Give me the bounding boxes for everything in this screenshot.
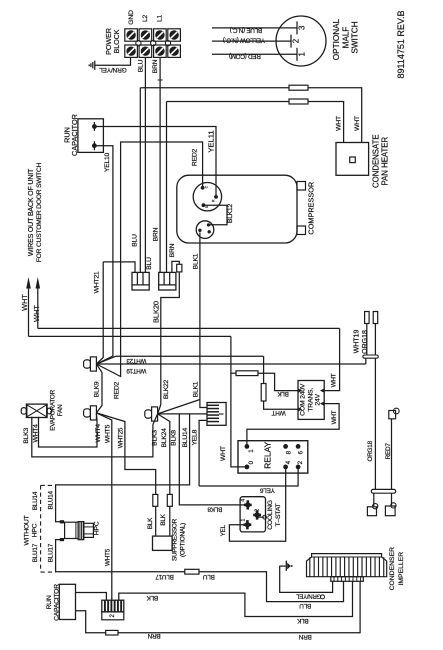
svg-text:BLU17: BLU17 — [32, 543, 39, 562]
svg-text:RED (COM): RED (COM) — [229, 53, 261, 60]
svg-text:BRN: BRN — [153, 227, 160, 241]
svg-text:BRN: BRN — [169, 243, 176, 257]
svg-text:WHT: WHT — [354, 116, 361, 131]
svg-text:BLK24: BLK24 — [161, 428, 168, 448]
svg-text:WHT: WHT — [20, 294, 29, 311]
svg-text:BLOCK: BLOCK — [112, 29, 121, 53]
svg-text:S: S — [205, 206, 209, 208]
svg-text:BLU: BLU — [299, 602, 311, 609]
svg-text:BLK: BLK — [147, 517, 154, 529]
svg-text:BLU: BLU — [203, 573, 215, 580]
svg-text:YEL8: YEL8 — [191, 429, 198, 445]
svg-text:BLK8: BLK8 — [207, 506, 222, 513]
svg-text:GRN/YEL: GRN/YEL — [295, 592, 321, 598]
svg-text:BLUE (N.C.): BLUE (N.C.) — [230, 27, 262, 34]
svg-text:CAPACITOR: CAPACITOR — [53, 584, 60, 621]
svg-text:COMPRESSOR: COMPRESSOR — [306, 182, 315, 235]
svg-text:BLK: BLK — [277, 390, 289, 397]
svg-text:BLU17: BLU17 — [155, 573, 174, 580]
svg-text:WHT: WHT — [331, 373, 338, 387]
svg-text:WHT: WHT — [336, 116, 343, 131]
svg-text:WHT: WHT — [331, 410, 338, 424]
svg-text:CONDENSER: CONDENSER — [389, 547, 396, 591]
svg-text:WIRES OUT BACK OF UNIT: WIRES OUT BACK OF UNIT — [27, 168, 35, 256]
svg-text:3: 3 — [297, 26, 306, 30]
svg-text:WHT: WHT — [220, 446, 227, 461]
svg-text:WHT: WHT — [32, 305, 41, 322]
svg-text:RED7: RED7 — [385, 443, 392, 460]
svg-text:L1: L1 — [156, 15, 163, 23]
svg-text:BLU14: BLU14 — [182, 427, 189, 447]
svg-text:2: 2 — [291, 39, 300, 43]
svg-text:(OPTIONAL): (OPTIONAL) — [179, 523, 186, 557]
svg-text:BLK1: BLK1 — [193, 253, 200, 269]
svg-text:T–STAT: T–STAT — [275, 504, 282, 527]
svg-text:RED2: RED2 — [114, 381, 121, 399]
svg-text:BLK9: BLK9 — [94, 381, 101, 397]
svg-text:BLK8: BLK8 — [171, 430, 178, 446]
svg-text:RUN: RUN — [46, 595, 53, 609]
svg-text:BLU14: BLU14 — [48, 490, 55, 509]
svg-text:BRN: BRN — [147, 632, 160, 639]
svg-text:BRN: BRN — [152, 59, 159, 73]
svg-text:OPTIONAL: OPTIONAL — [332, 18, 341, 60]
svg-text:BLU: BLU — [146, 257, 153, 270]
svg-text:SWITCH: SWITCH — [351, 21, 360, 53]
svg-text:BLK3: BLK3 — [152, 430, 159, 446]
svg-text:BLU: BLU — [132, 234, 139, 247]
svg-text:BRN: BRN — [298, 633, 311, 640]
svg-text:BLK: BLK — [146, 594, 158, 601]
svg-text:CAPACITOR: CAPACITOR — [70, 114, 79, 156]
svg-text:RED2: RED2 — [192, 148, 199, 166]
svg-text:WHT5: WHT5 — [104, 424, 111, 443]
svg-text:WHT25: WHT25 — [117, 427, 124, 448]
svg-text:YEL11: YEL11 — [206, 130, 215, 152]
svg-text:RELAY: RELAY — [263, 441, 273, 469]
svg-text:WITHOUT: WITHOUT — [24, 515, 31, 545]
svg-text:BLU14: BLU14 — [32, 491, 39, 510]
svg-text:COOLING: COOLING — [267, 500, 274, 530]
svg-text:WHT21: WHT21 — [94, 271, 101, 293]
svg-text:IMPELLER: IMPELLER — [398, 552, 405, 586]
svg-text:BLK22: BLK22 — [163, 379, 170, 399]
svg-text:YEL6: YEL6 — [259, 487, 274, 494]
svg-text:1: 1 — [297, 52, 306, 56]
svg-text:BLK3: BLK3 — [23, 428, 30, 444]
svg-text:FOR CUSTOMER DOOR SWITCH: FOR CUSTOMER DOOR SWITCH — [36, 162, 43, 262]
svg-text:COM 240V: COM 240V — [300, 383, 307, 416]
svg-text:YEL: YEL — [220, 524, 227, 536]
svg-text:WHT23: WHT23 — [126, 357, 147, 364]
svg-text:WHT19: WHT19 — [126, 367, 147, 374]
svg-text:BLU17: BLU17 — [48, 543, 55, 562]
svg-text:GND: GND — [128, 10, 135, 25]
svg-text:BLK: BLK — [296, 617, 308, 624]
svg-text:HPC: HPC — [94, 521, 101, 535]
svg-text:WHT: WHT — [272, 409, 286, 416]
svg-text:FAN: FAN — [57, 404, 64, 416]
svg-text:BLK1: BLK1 — [192, 381, 199, 397]
svg-text:WHT19: WHT19 — [354, 330, 361, 354]
svg-text:YELLOW (N.O.): YELLOW (N.O.) — [223, 36, 265, 43]
svg-text:WHT5: WHT5 — [104, 548, 111, 566]
svg-text:ORG18: ORG18 — [367, 440, 374, 461]
svg-text:MALF: MALF — [342, 27, 351, 49]
svg-text:TRANS.: TRANS. — [307, 388, 314, 412]
svg-text:CONDENSATE: CONDENSATE — [371, 134, 380, 188]
svg-text:WHT4: WHT4 — [95, 424, 102, 443]
svg-text:ORG18: ORG18 — [362, 330, 369, 354]
svg-text:BLK: BLK — [160, 513, 167, 525]
svg-text:HPC: HPC — [31, 523, 38, 537]
svg-text:BLK12: BLK12 — [227, 203, 234, 223]
svg-text:WHT4: WHT4 — [32, 424, 39, 443]
svg-text:EVAPORATOR: EVAPORATOR — [50, 389, 57, 430]
svg-text:L2: L2 — [142, 15, 149, 23]
svg-text:BLK20: BLK20 — [151, 301, 160, 323]
svg-text:SUPPRESSOR: SUPPRESSOR — [171, 518, 178, 561]
svg-text:BLU: BLU — [138, 59, 145, 72]
svg-text:89114751 REV.B: 89114751 REV.B — [396, 10, 406, 78]
svg-text:PAN HEATER: PAN HEATER — [381, 137, 390, 186]
svg-text:GRN/YEL: GRN/YEL — [99, 66, 127, 73]
svg-text:YEL10: YEL10 — [104, 152, 111, 172]
